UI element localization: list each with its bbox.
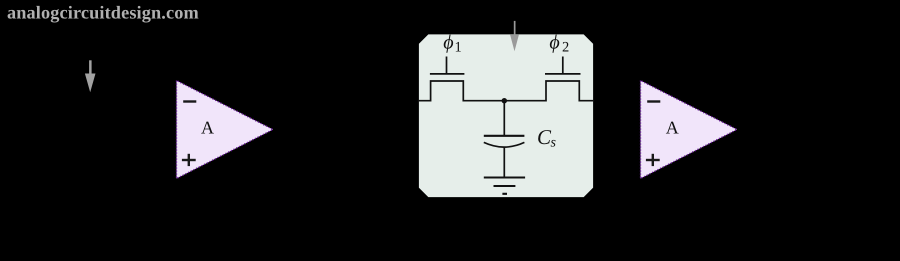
svg-text:s: s [550,136,556,151]
svg-text:1: 1 [455,39,462,55]
svg-text:A: A [666,118,679,138]
svg-text:ϕ: ϕ [549,31,559,53]
svg-text:ϕ: ϕ [443,31,453,53]
svg-text:analogcircuitdesign.com: analogcircuitdesign.com [7,3,199,24]
svg-text:A: A [201,118,214,138]
svg-text:2: 2 [562,40,569,56]
